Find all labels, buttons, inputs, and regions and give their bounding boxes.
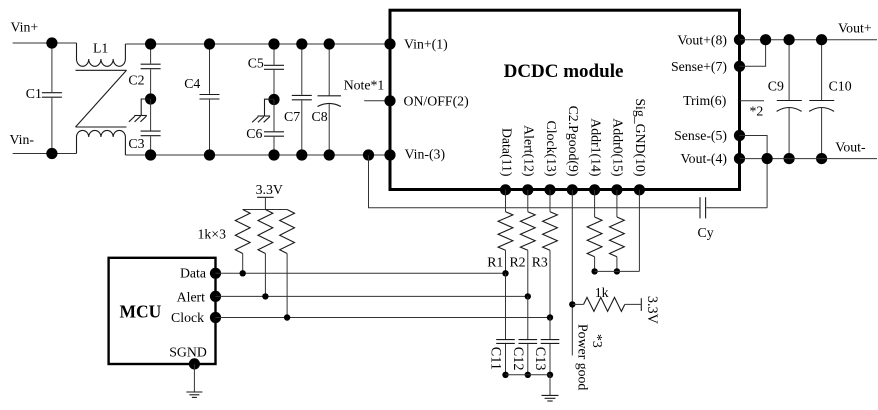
wire Vout- rail: [740, 158, 878, 160]
resistor R3: [549, 190, 551, 212]
svg-text:Vin-: Vin-: [10, 132, 35, 147]
pin Clock: [210, 312, 221, 323]
svg-text:Sense-(5): Sense-(5): [674, 128, 727, 144]
node junction Addr0 bottom: [614, 268, 620, 274]
node junction Vin- C3: [145, 149, 156, 160]
pin C2.Pgood(9): [567, 184, 578, 195]
svg-text:3.3V: 3.3V: [644, 296, 660, 325]
pin Vin+(1): [384, 38, 395, 49]
svg-text:C10: C10: [829, 79, 852, 94]
svg-text:Alert: Alert: [177, 290, 206, 305]
svg-text:Trim(6): Trim(6): [683, 93, 726, 109]
pin ON/OFF(2): [384, 95, 395, 106]
svg-text:Clock(13): Clock(13): [543, 121, 559, 177]
capacitor C12: [527, 296, 529, 339]
svg-text:C13: C13: [532, 347, 548, 371]
svg-text:C2.Pgood(9): C2.Pgood(9): [565, 106, 581, 177]
wire Vin+ rail right of L1: [125, 43, 390, 45]
svg-text:R2: R2: [509, 255, 525, 270]
svg-text:C4: C4: [184, 76, 200, 91]
node junction Vin+ C1: [46, 37, 57, 48]
wire Addr resistors to Sig_GND: [595, 270, 640, 272]
svg-text:3.3V: 3.3V: [256, 182, 283, 197]
capacitor C6: [273, 100, 275, 132]
capacitor Cy: [699, 197, 701, 218]
capacitor C8: [328, 44, 330, 96]
pin Sense-(5): [734, 130, 745, 141]
node junction Vin+ C5: [268, 38, 279, 49]
svg-text:Vin+: Vin+: [11, 20, 39, 35]
node junction Vin- C7: [296, 149, 307, 160]
svg-text:Vin-(3): Vin-(3): [405, 146, 446, 162]
node junction Vout+ C9: [784, 34, 795, 45]
inductor L1 core bottom bar: [76, 126, 127, 128]
pin Alert: [210, 291, 221, 302]
svg-text:C1: C1: [26, 86, 42, 101]
ground earth at C13: [542, 394, 559, 396]
svg-text:1k: 1k: [595, 285, 609, 300]
node junction Sense-/Cy on Vout- rail: [762, 153, 773, 164]
svg-text:Vout-(4): Vout-(4): [681, 151, 728, 167]
pin Sig_GND(10): [634, 184, 645, 195]
svg-text:Cy: Cy: [698, 225, 714, 240]
node junction C12 bottom: [525, 372, 531, 378]
capacitor C3: [150, 99, 152, 131]
capacitor C7: [301, 44, 303, 95]
svg-text:MCU: MCU: [120, 302, 162, 322]
svg-text:Power good: Power good: [576, 324, 591, 390]
node junction C13 bottom: [547, 372, 553, 378]
svg-text:*2: *2: [750, 104, 764, 119]
svg-text:C12: C12: [510, 347, 526, 371]
resistor pull-up 3 of 1kx3: [280, 210, 295, 254]
node junction Vin- C1: [46, 148, 57, 159]
capacitor C11: [505, 273, 507, 339]
node junction Pgood 1k: [569, 301, 575, 307]
wire C2.Pgood down: [571, 190, 573, 356]
node junction Vin- C4: [204, 149, 215, 160]
wire pull-up bus: [243, 209, 287, 211]
svg-text:C6: C6: [246, 126, 262, 141]
resistor pull-up 2 of 1kx3: [258, 210, 273, 254]
svg-text:Alert(12): Alert(12): [521, 125, 537, 176]
svg-text:Clock: Clock: [171, 310, 204, 325]
wire Sense- jog: [740, 136, 768, 159]
node junction R1 line: [502, 270, 508, 276]
capacitor C4: [209, 44, 211, 94]
node junction Vout+ C10: [816, 34, 827, 45]
svg-text:L1: L1: [93, 41, 108, 56]
wire Sig_GND down: [638, 190, 640, 272]
svg-text:Data: Data: [180, 266, 206, 281]
capacitor C13: [549, 318, 551, 340]
svg-text:Note*1: Note*1: [344, 78, 385, 93]
pin Data(11): [500, 184, 511, 195]
wire Vin+ rail left: [13, 42, 77, 44]
wire Clock line: [216, 317, 551, 319]
wire ON/OFF stub: [364, 100, 390, 102]
pin Clock(13): [544, 184, 555, 195]
capacitor C2: [150, 44, 152, 64]
svg-text:Vout-: Vout-: [835, 140, 866, 155]
svg-text:C8: C8: [312, 109, 328, 124]
svg-text:Vout+: Vout+: [838, 21, 872, 36]
pin Vout+(8): [734, 34, 745, 45]
resistor Addr1 pull-down: [594, 190, 596, 217]
pin Sense+(7): [734, 61, 745, 72]
inductor L1 core diagonal: [76, 70, 127, 127]
node junction C11 bottom: [502, 372, 508, 378]
resistor R2: [527, 190, 529, 212]
wire SGND to ground: [193, 364, 195, 392]
wire C11-C13 bottom bus: [506, 374, 551, 376]
pin Vin-(3): [384, 149, 395, 160]
svg-text:C5: C5: [248, 56, 264, 71]
svg-text:C7: C7: [284, 109, 300, 124]
svg-text:Addr0(15): Addr0(15): [610, 118, 626, 176]
svg-text:Data(11): Data(11): [498, 128, 514, 177]
svg-text:Sig_GND(10): Sig_GND(10): [632, 98, 648, 176]
wire Vin- to Cy: [369, 155, 700, 208]
svg-text:1k×3: 1k×3: [198, 227, 227, 242]
pin Addr1(14): [589, 184, 600, 195]
resistor R1: [505, 190, 507, 212]
wire Cy to Vout- rail: [766, 159, 768, 208]
wire Alert line: [216, 295, 528, 297]
capacitor C9: [788, 40, 790, 100]
MCU box: [109, 258, 216, 364]
svg-text:SGND: SGND: [169, 345, 207, 360]
pin Data: [210, 268, 221, 279]
DCDC module U1 box: [390, 10, 740, 189]
resistor pull-up 1 of 1kx3: [235, 210, 250, 254]
svg-text:*3: *3: [590, 334, 605, 348]
wire Trim stub: [740, 100, 765, 102]
node junction Vout- C9: [784, 153, 795, 164]
node junction Vin+ C7: [296, 38, 307, 49]
ground chassis at C2-C3: [141, 99, 150, 116]
ground earth at SGND: [186, 391, 202, 393]
wire Sense+ jog: [740, 40, 766, 67]
node junction pull-up 1: [240, 270, 246, 276]
svg-text:C11: C11: [488, 347, 504, 370]
ground chassis at C5-C6: [265, 99, 275, 116]
node junction Vin+ C2: [145, 38, 156, 49]
node junction R3 line: [547, 314, 553, 320]
node junction Vin- C8: [324, 149, 335, 160]
node junction Vin+ C8: [324, 38, 335, 49]
node junction C5-C6: [268, 94, 279, 105]
node junction Addr1 bottom: [591, 268, 597, 274]
pin Addr0(15): [611, 184, 622, 195]
wire Vin- rail right of L1: [125, 154, 390, 156]
pin Alert(12): [522, 184, 533, 195]
svg-text:ON/OFF(2): ON/OFF(2): [404, 93, 469, 109]
node junction pull-up 3: [284, 314, 290, 320]
resistor 1k pull-up: [572, 303, 583, 305]
svg-text:DCDC module: DCDC module: [504, 61, 624, 82]
node junction Vout- C10: [816, 153, 827, 164]
node junction Vin- C6: [268, 149, 279, 160]
node junction Vin+ C4: [204, 38, 215, 49]
wire Vout+ rail: [740, 39, 878, 41]
inductor L1 core top bar: [76, 69, 127, 71]
svg-text:C3: C3: [128, 136, 144, 151]
svg-text:R1: R1: [487, 255, 503, 270]
inductor L1 bottom winding: [76, 137, 78, 154]
node junction pull-up 2: [262, 293, 268, 299]
svg-text:Vin+(1): Vin+(1): [404, 37, 448, 53]
svg-text:Addr1(14): Addr1(14): [587, 118, 603, 176]
wire to earth ground: [549, 375, 551, 395]
node junction Vin- to Cy: [363, 149, 374, 160]
capacitor C1: [51, 43, 53, 92]
pin SGND: [189, 358, 200, 369]
svg-text:Vout+(8): Vout+(8): [677, 32, 727, 48]
svg-text:Sense+(7): Sense+(7): [671, 59, 727, 75]
resistor Addr0 pull-down: [616, 190, 618, 217]
node junction Sense+ on Vout+ rail: [760, 34, 771, 45]
svg-text:C2: C2: [128, 73, 144, 88]
capacitor C5: [273, 44, 275, 65]
wire Data line: [216, 272, 506, 274]
node junction C2-C3: [145, 93, 156, 104]
power 3.3V supply at 1k: [640, 298, 642, 311]
svg-text:R3: R3: [532, 255, 548, 270]
svg-text:C9: C9: [768, 79, 784, 94]
pin Vout-(4): [734, 153, 745, 164]
capacitor C10: [821, 40, 823, 100]
wire Vin- rail left: [13, 153, 77, 155]
node junction R2 line: [525, 293, 531, 299]
inductor L1 top winding: [76, 43, 78, 59]
